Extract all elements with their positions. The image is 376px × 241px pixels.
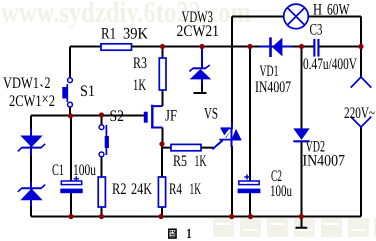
- jfet JF: [144, 105, 163, 129]
- wire VDW3 bottom terminal bar: [194, 84, 207, 93]
- capacitor C2: [238, 174, 261, 193]
- wire left column zeners: [30, 116, 32, 217]
- wire R3 JF R4 column: [161, 47, 164, 217]
- wire VD2 column: [301, 47, 303, 217]
- resistor R1: [101, 44, 132, 50]
- wire S2 R2 column: [101, 116, 103, 217]
- wire R5 leads: [162, 147, 213, 149]
- svg-text:39K: 39K: [123, 26, 148, 43]
- svg-text:C3: C3: [310, 22, 323, 39]
- lamp H: [284, 4, 309, 29]
- svg-text:2: 2: [45, 75, 51, 92]
- ground: [296, 217, 308, 228]
- svg-text:R5: R5: [173, 153, 187, 170]
- capacitor C1: [60, 176, 82, 193]
- svg-text:100u: 100u: [73, 162, 96, 179]
- svg-text:1K: 1K: [133, 77, 146, 94]
- wire bottom bus: [31, 216, 361, 218]
- svg-text:2CW21: 2CW21: [177, 23, 220, 40]
- svg-text:2CW1×2: 2CW1×2: [9, 91, 55, 110]
- svg-text:1: 1: [187, 227, 192, 241]
- svg-text:C1: C1: [52, 162, 64, 179]
- wire top bus right segment: [319, 46, 361, 48]
- svg-text:R1: R1: [101, 26, 116, 43]
- svg-text:0.47u/400V: 0.47u/400V: [303, 56, 357, 73]
- AC terminal bottom: [351, 117, 372, 127]
- svg-text:VD1: VD1: [260, 63, 279, 80]
- svg-text:60W: 60W: [327, 2, 350, 19]
- resistor R4: [158, 177, 165, 207]
- resistor R2: [98, 177, 105, 207]
- svg-text:1K: 1K: [195, 153, 207, 170]
- zener VDW3: [189, 49, 210, 85]
- wire S1 top: [69, 47, 71, 78]
- switch S2: [99, 125, 109, 157]
- switch S1: [62, 78, 72, 107]
- wire mid horizontal: [31, 115, 144, 117]
- diode VD1: [260, 37, 292, 57]
- svg-text:24K: 24K: [131, 181, 152, 198]
- svg-text:R4: R4: [169, 181, 182, 198]
- svg-text:1K: 1K: [190, 181, 202, 198]
- svg-text:VS: VS: [204, 106, 218, 123]
- wire lamp right and AC terminal column: [309, 17, 361, 217]
- diode VD2: [293, 128, 309, 141]
- svg-text:220V~: 220V~: [344, 105, 375, 122]
- AC terminal top: [351, 77, 372, 88]
- svg-text:JF: JF: [165, 108, 177, 125]
- svg-text:VDW1: VDW1: [3, 75, 39, 92]
- wire S1 bottom: [69, 107, 71, 116]
- resistor R3: [159, 58, 166, 90]
- svg-text:IN4007: IN4007: [303, 153, 346, 170]
- zener VDW2: [18, 182, 45, 206]
- svg-text:IN4007: IN4007: [255, 79, 291, 96]
- wire C2 column: [249, 47, 251, 217]
- wire lamp left and triac column: [232, 17, 283, 217]
- svg-text:H: H: [313, 2, 322, 19]
- zener VDW1: [18, 129, 45, 156]
- figure caption 图 1: [168, 227, 192, 241]
- svg-text:100u: 100u: [270, 183, 292, 200]
- svg-text:S1: S1: [80, 83, 95, 100]
- svg-text:R3: R3: [133, 55, 147, 72]
- svg-text:R2: R2: [112, 181, 127, 198]
- svg-text:S2: S2: [110, 108, 125, 125]
- wire top bus left segment: [70, 46, 314, 48]
- triac VS: [212, 122, 241, 149]
- wire C1 column: [70, 116, 72, 217]
- capacitor C3: [313, 39, 319, 57]
- resistor R5: [171, 144, 201, 150]
- watermark bottom blocks: [213, 218, 376, 237]
